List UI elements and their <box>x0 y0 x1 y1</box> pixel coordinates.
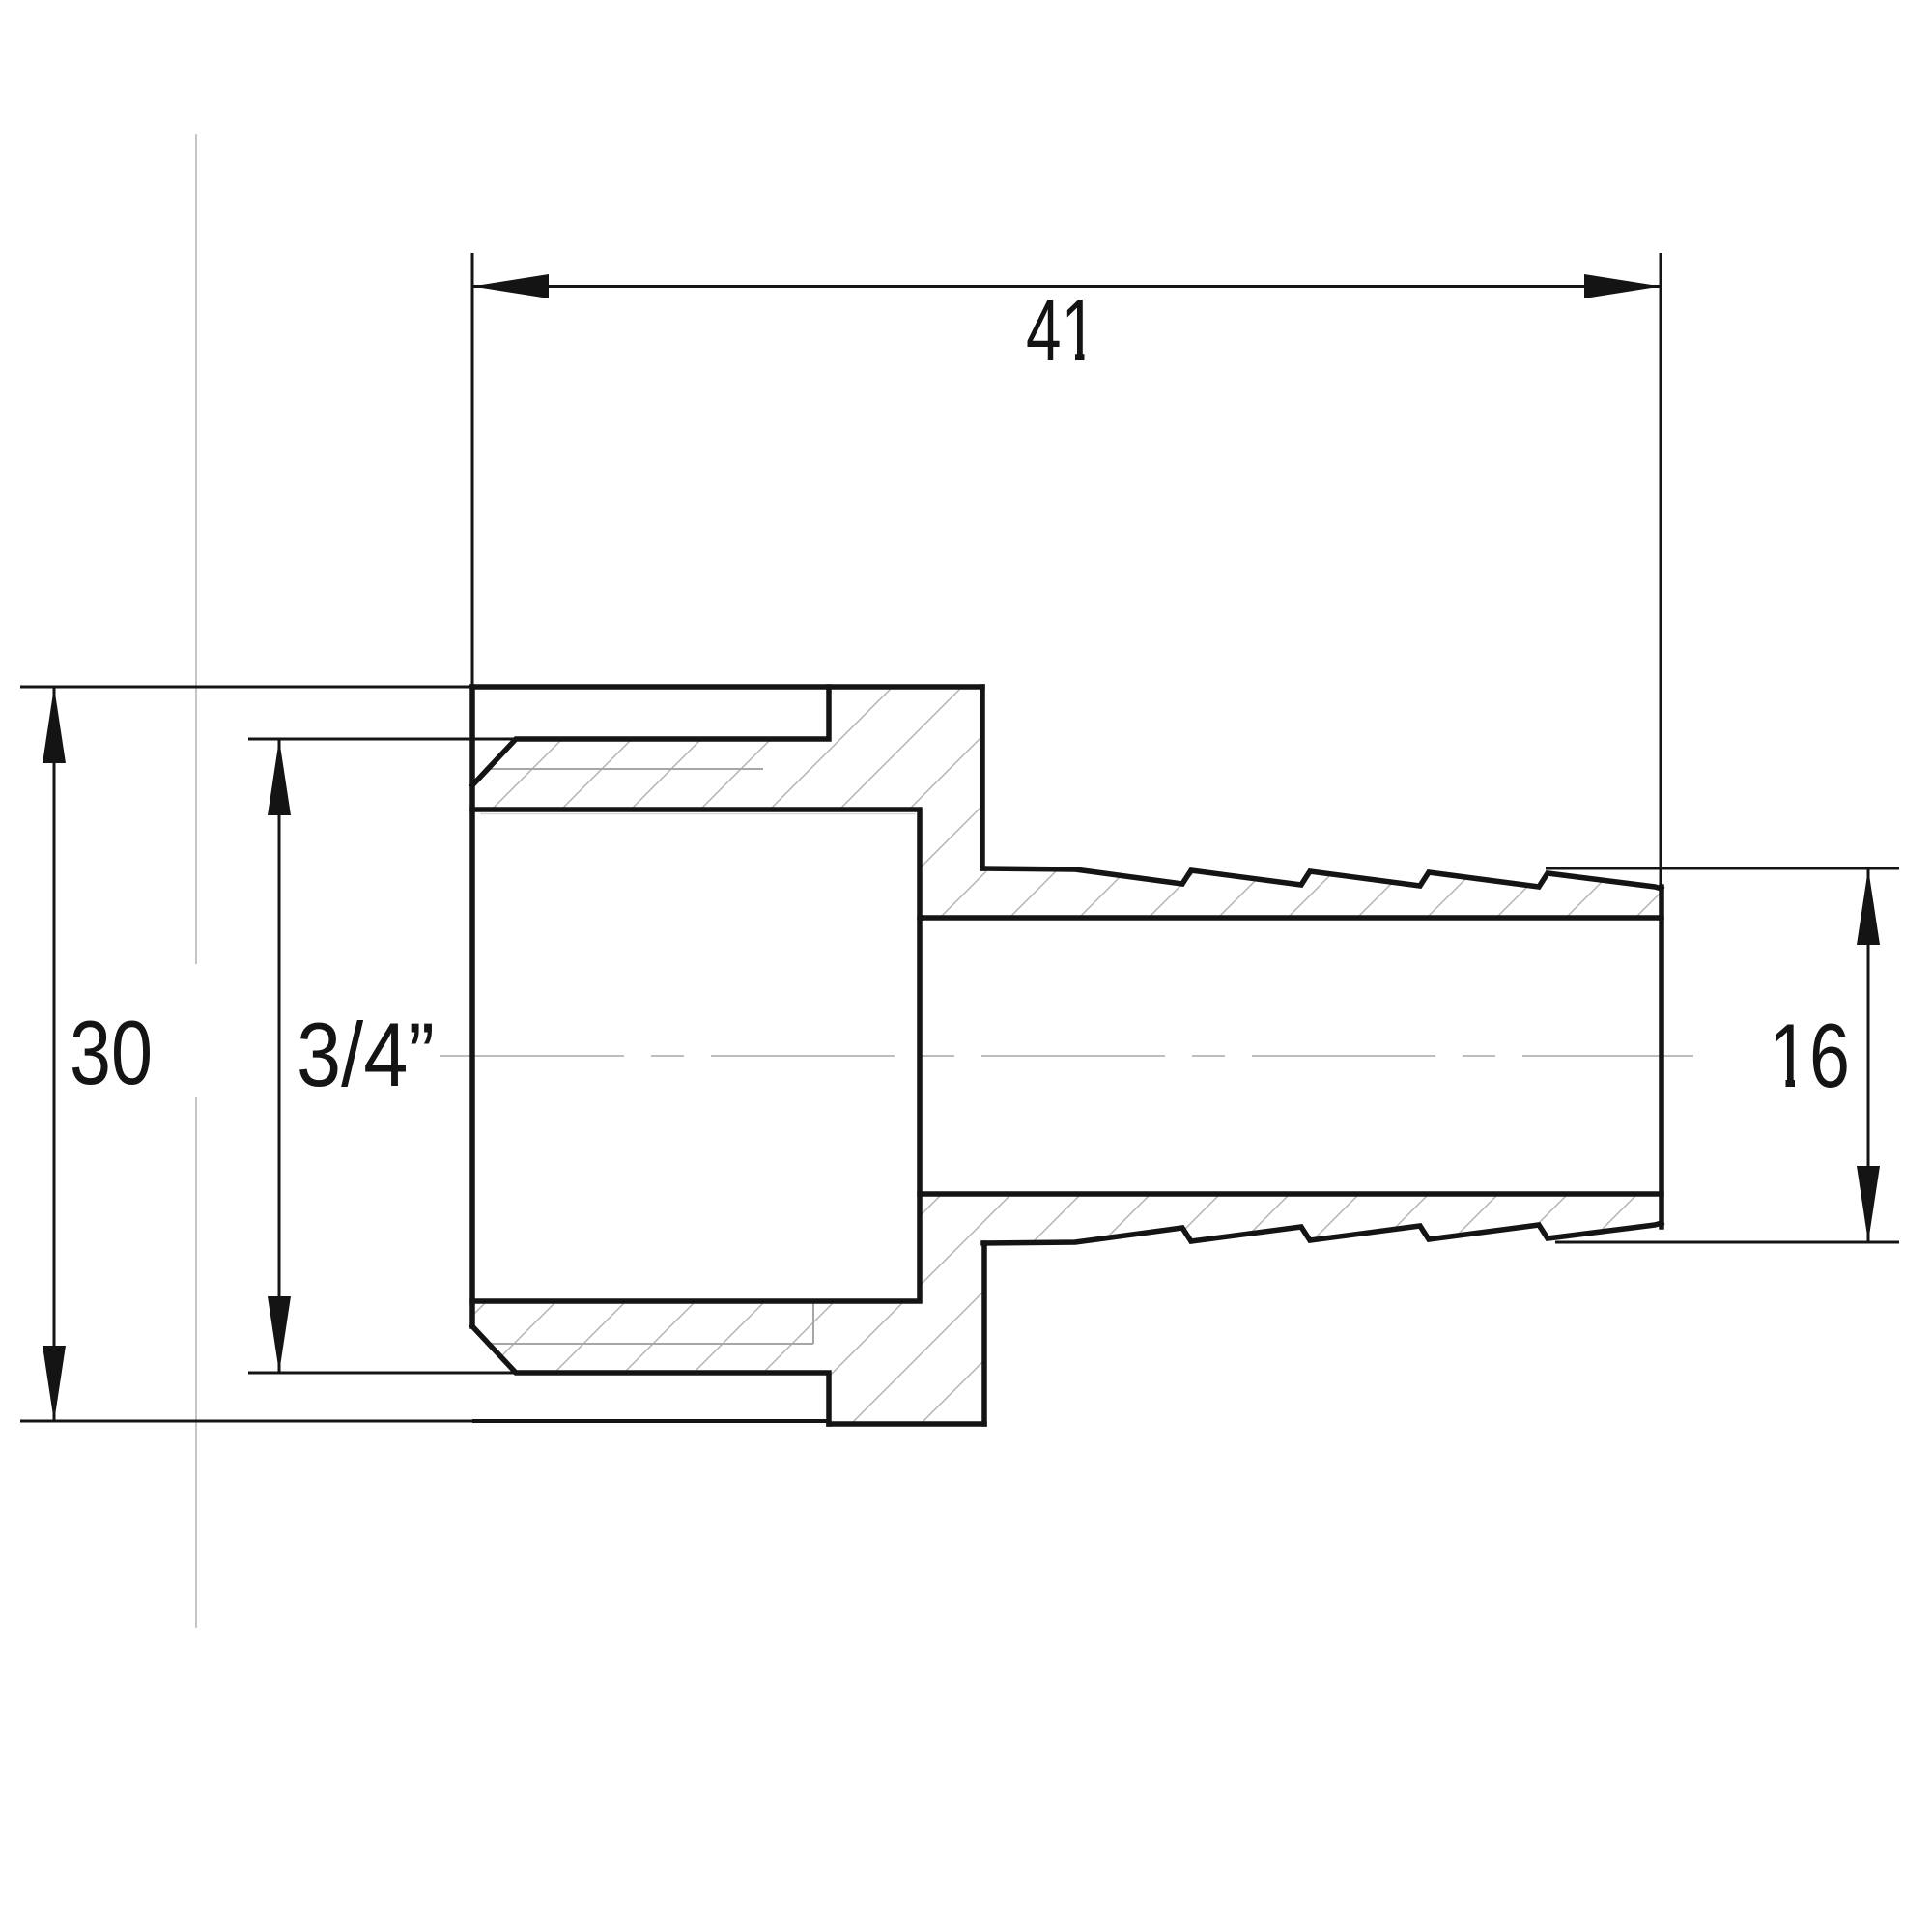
shoulder step top <box>980 687 985 868</box>
thread notch bottom: chamfer, thread line, step <box>472 1326 829 1424</box>
svg-text:30: 30 <box>70 1002 153 1103</box>
arrowhead 30 top <box>43 687 66 763</box>
thread auxiliary thin line top <box>490 768 763 770</box>
socket cavity <box>472 810 920 1301</box>
hatch bottom half (section material) <box>472 1194 1662 1423</box>
bore bottom line <box>920 1191 1662 1197</box>
extension line right <box>1660 253 1662 885</box>
dimension line <box>1867 868 1870 1242</box>
svg-text:3/4”: 3/4” <box>297 1004 435 1105</box>
cavity top companion hairline <box>480 813 916 815</box>
dimension 3/4" <box>248 739 517 1373</box>
svg-text:16: 16 <box>1769 1005 1850 1106</box>
horizontal centerline (dash-dot, gray) <box>440 1055 1693 1057</box>
arrowhead 16 top <box>1857 868 1880 945</box>
extension line top <box>20 686 472 689</box>
dimension 16 <box>1546 868 1899 1242</box>
arrowhead 3/4 bottom <box>268 1296 291 1373</box>
shoulder step bottom <box>981 1243 987 1424</box>
outer bottom edge left part (lighter) <box>472 1419 829 1423</box>
barb profile top (sawtooth) <box>982 868 1662 889</box>
outer top edge <box>472 684 982 690</box>
extension line bottom <box>1555 1241 1899 1244</box>
outer bottom edge right part <box>829 1421 984 1427</box>
dimension line <box>278 739 281 1373</box>
fitting outline (thick) <box>472 687 1662 1424</box>
arrowhead 41 left <box>472 274 549 298</box>
arrowhead 3/4 top <box>268 739 291 815</box>
arrowhead 16 bottom <box>1857 1166 1880 1242</box>
serif-foot eraser for digit 1 of 16 <box>1773 1078 1786 1089</box>
right end face <box>1659 887 1664 1227</box>
extension line bottom <box>248 1372 517 1375</box>
dimension line <box>53 687 56 1422</box>
dimension 41 <box>472 253 1661 885</box>
vertical construction centerline (left, gray) <box>195 134 197 1628</box>
extension line bottom <box>20 1420 472 1423</box>
thread notch top: thread line, step, chamfer <box>472 687 829 785</box>
dimension 30 <box>20 687 472 1422</box>
svg-text:41: 41 <box>1026 283 1096 380</box>
dimension line <box>472 285 1661 288</box>
arrowhead 41 right <box>1584 274 1661 298</box>
thread auxiliary thin line bottom <box>490 1301 813 1344</box>
serif-foot eraser for digit 1 of 41 <box>1065 352 1075 362</box>
bore top line <box>920 915 1662 921</box>
extension line top <box>248 738 517 741</box>
extension line left <box>471 253 474 687</box>
left face <box>469 687 475 1326</box>
barb profile bottom (sawtooth) <box>983 1223 1662 1243</box>
hatch top half (section material) <box>472 687 1662 918</box>
extension line top <box>1546 867 1899 870</box>
arrowhead 30 bottom <box>43 1346 66 1422</box>
